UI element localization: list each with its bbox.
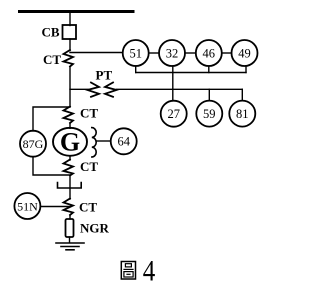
- wire PT to relay bus 2: [117, 88, 243, 90]
- svg-text:CT: CT: [80, 106, 98, 121]
- relay circle 87G: [20, 131, 46, 157]
- wire CT4 to NGR: [69, 215, 71, 219]
- ground: [56, 242, 84, 244]
- resistor NGR: [66, 219, 74, 237]
- wire CT1 to relay 51: [70, 52, 123, 54]
- wire bus1 horizontal: [136, 72, 246, 74]
- wire 51 drop to bus1: [135, 66, 137, 73]
- wire 87G top branch: [33, 107, 70, 131]
- relay circle 59: [196, 101, 222, 127]
- wire CT3 to CT4: [69, 176, 71, 200]
- wire bus2 drop to 59: [208, 89, 210, 100]
- wire 46 to 49: [222, 52, 232, 54]
- wire bus2 drop to 81: [241, 89, 243, 100]
- svg-text:NGR: NGR: [80, 221, 110, 236]
- svg-text:51: 51: [129, 46, 142, 60]
- wire CT1 down to PT tap and CT2: [69, 67, 71, 107]
- svg-text:64: 64: [117, 135, 130, 149]
- winding coil beside G: [92, 128, 96, 157]
- wire 51 to 32: [149, 52, 159, 54]
- breaker CB: [63, 25, 77, 39]
- generator G circle: [53, 128, 87, 156]
- wire PT tap left: [70, 88, 88, 90]
- CT CT1: [64, 50, 74, 67]
- CT CT3: [64, 160, 74, 176]
- svg-text:81: 81: [236, 107, 249, 121]
- relay circle 64: [111, 128, 137, 154]
- wire bus to CB: [69, 13, 71, 26]
- svg-text:32: 32: [166, 46, 179, 60]
- wire coil to 64: [97, 140, 111, 142]
- wire 32 to 46: [185, 52, 196, 54]
- svg-text:4: 4: [143, 254, 156, 287]
- svg-text:CT: CT: [80, 159, 98, 174]
- wire CB to CT1: [69, 39, 71, 51]
- relay circle 51N: [14, 193, 40, 219]
- svg-text:CT: CT: [43, 52, 61, 67]
- wire 46 drop to bus1: [208, 66, 210, 73]
- svg-text:46: 46: [203, 46, 216, 60]
- svg-text:87G: 87G: [23, 137, 44, 151]
- relay circle 51: [123, 40, 149, 66]
- svg-text:CT: CT: [79, 200, 97, 215]
- wire 32 to 27 vertical: [172, 66, 174, 101]
- relay circle 81: [229, 101, 255, 127]
- wire 51N to CT4: [41, 206, 70, 208]
- relay circle 32: [159, 40, 185, 66]
- relay circle 27: [161, 101, 187, 127]
- wire G to CT3: [69, 156, 71, 160]
- svg-text:27: 27: [167, 107, 180, 121]
- svg-text:49: 49: [238, 46, 251, 60]
- svg-text:CB: CB: [42, 25, 60, 40]
- transformer PT left winding: [88, 83, 100, 97]
- svg-text:PT: PT: [96, 68, 113, 83]
- wire 49 drop to bus1: [245, 66, 247, 73]
- CT CT4: [64, 199, 74, 216]
- svg-text:G: G: [60, 127, 80, 156]
- relay circle 49: [232, 40, 258, 66]
- caption figure 4: [121, 254, 155, 287]
- svg-text:59: 59: [203, 107, 216, 121]
- CT CT2: [64, 107, 74, 124]
- wire NGR to ground: [69, 237, 71, 243]
- svg-text:51N: 51N: [17, 199, 38, 213]
- link terminal bracket: [58, 183, 82, 188]
- transformer PT right winding: [105, 83, 117, 97]
- relay circle 46: [196, 40, 222, 66]
- wire 87G bottom branch: [33, 157, 70, 175]
- wire CT2 to G: [69, 123, 71, 128]
- bus bar: [20, 10, 134, 13]
